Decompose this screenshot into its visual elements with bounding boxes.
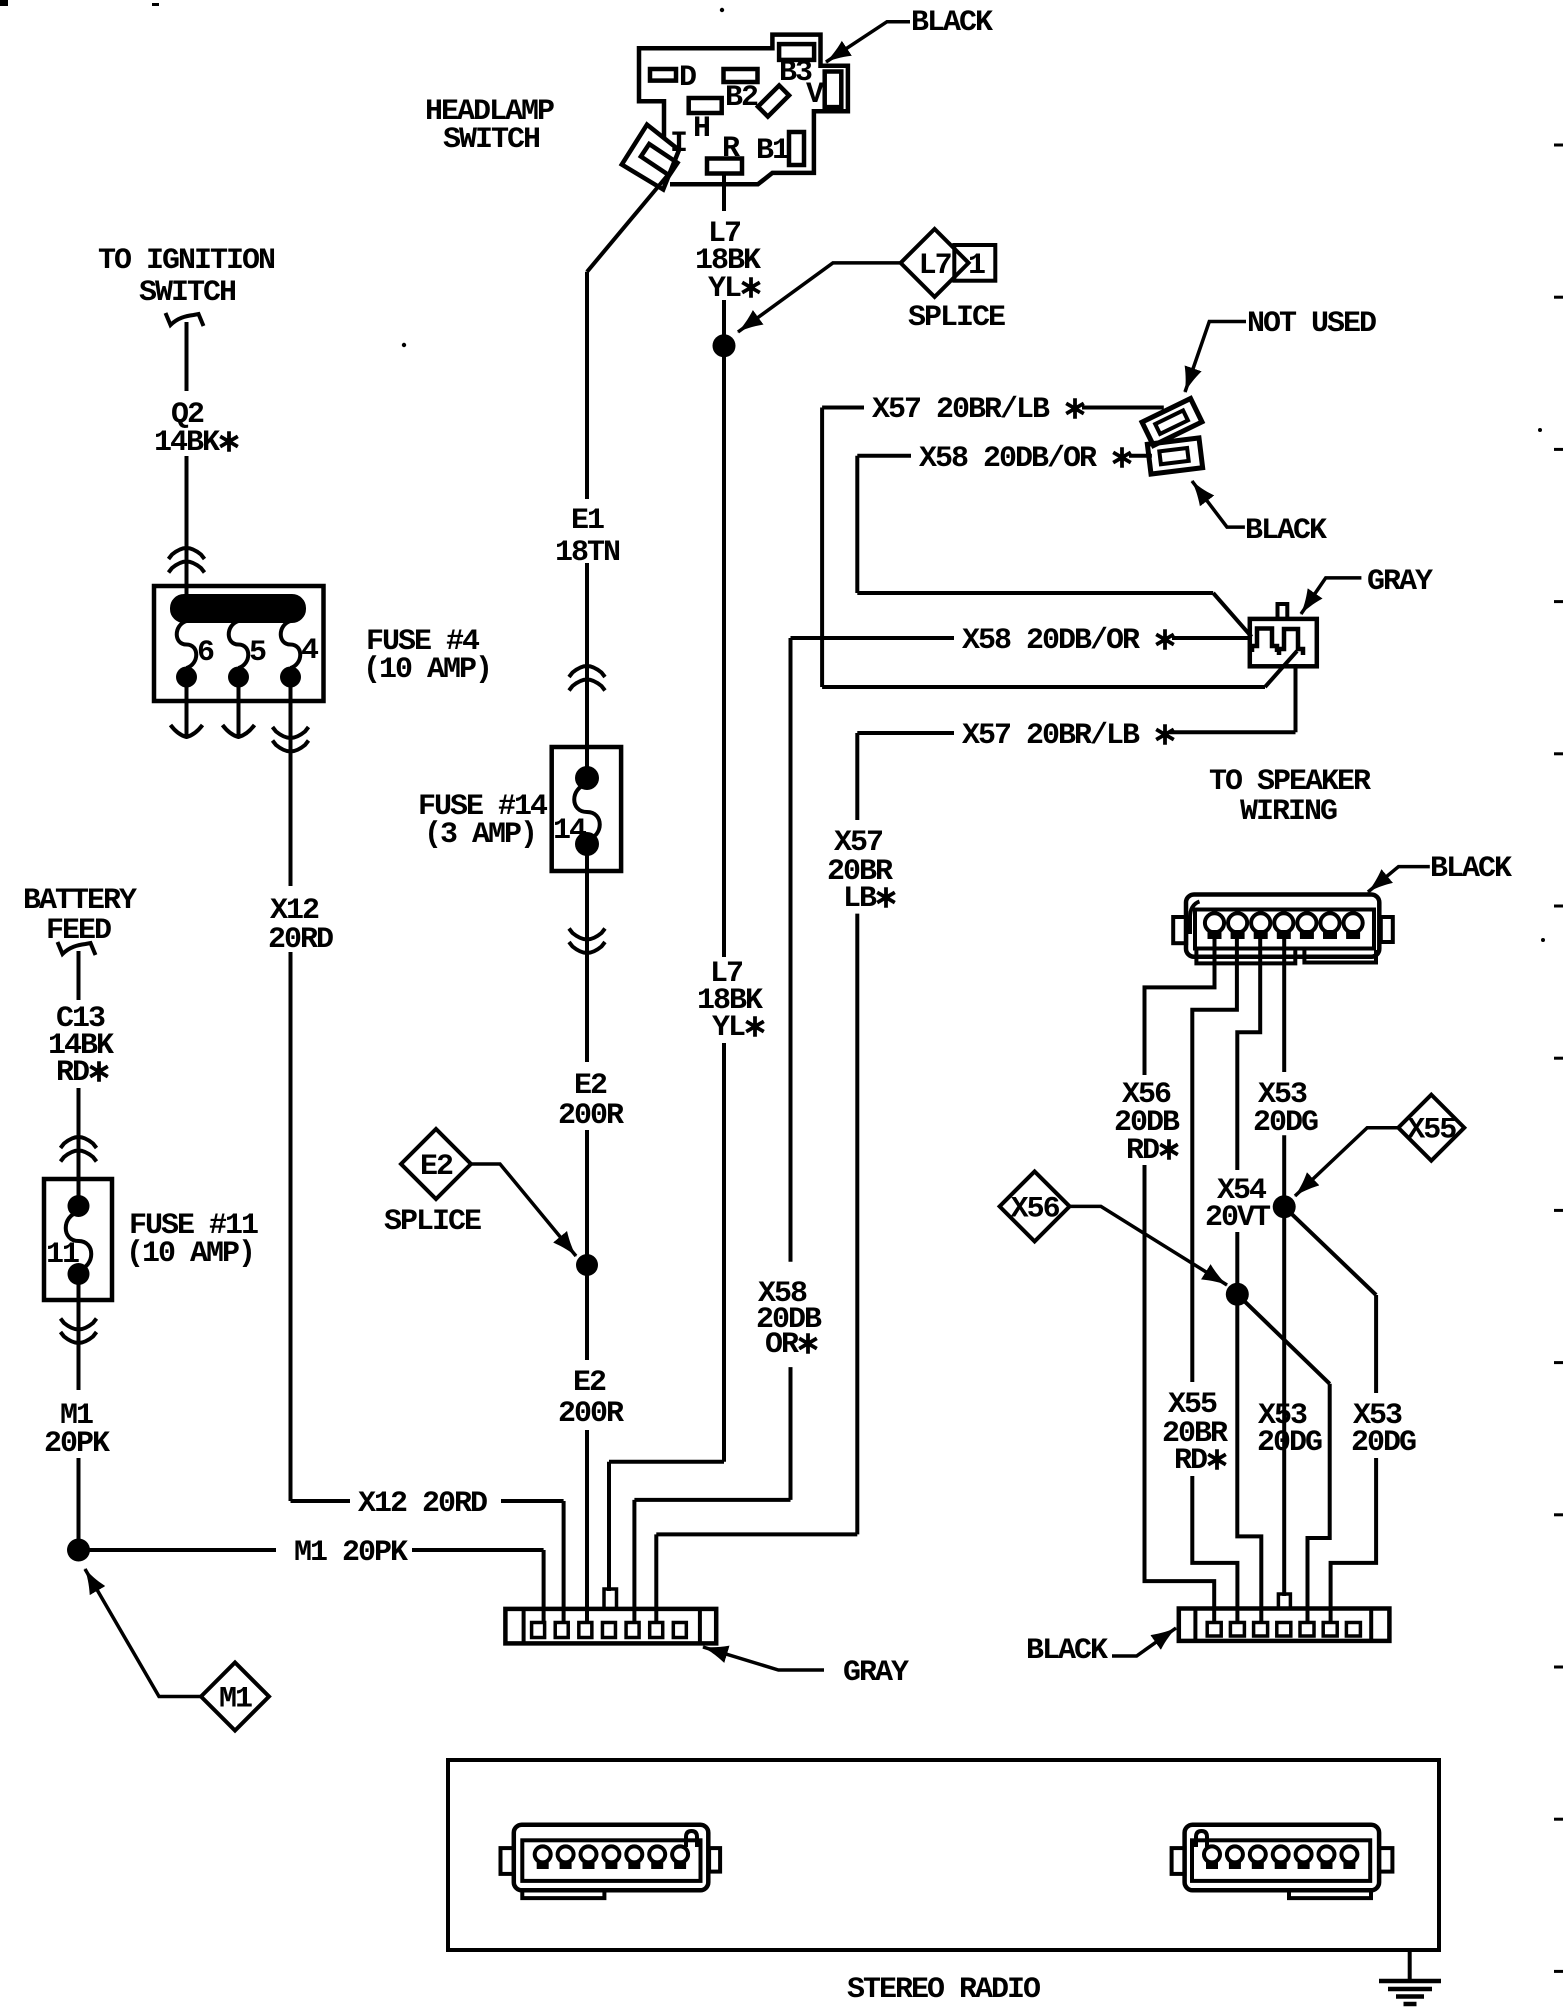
svg-text:BLACK: BLACK bbox=[1026, 1634, 1108, 1668]
svg-text:(10 AMP): (10 AMP) bbox=[363, 653, 491, 687]
svg-text:LB: LB bbox=[843, 882, 877, 916]
svg-text:X58 20DB/OR: X58 20DB/OR bbox=[962, 624, 1140, 658]
svg-text:1: 1 bbox=[968, 249, 985, 283]
svg-text:B1: B1 bbox=[756, 134, 789, 168]
svg-text:M1: M1 bbox=[219, 1683, 252, 1717]
svg-text:14: 14 bbox=[553, 814, 587, 848]
svg-text:X55: X55 bbox=[1407, 1114, 1456, 1148]
svg-text:11: 11 bbox=[46, 1238, 79, 1272]
svg-text:X12 20RD: X12 20RD bbox=[358, 1487, 487, 1521]
svg-text:6: 6 bbox=[197, 636, 214, 670]
svg-text:TO SPEAKER: TO SPEAKER bbox=[1209, 765, 1371, 799]
svg-text:X57 20BR/LB: X57 20BR/LB bbox=[962, 719, 1140, 753]
svg-text:H: H bbox=[693, 112, 709, 146]
svg-text:20RD: 20RD bbox=[268, 923, 333, 957]
svg-text:SPLICE: SPLICE bbox=[908, 301, 1005, 335]
svg-text:RD: RD bbox=[1174, 1444, 1207, 1478]
svg-text:M1 20PK: M1 20PK bbox=[294, 1536, 408, 1570]
svg-text:X56: X56 bbox=[1011, 1192, 1060, 1226]
svg-text:GRAY: GRAY bbox=[1367, 565, 1433, 599]
svg-text:(10 AMP): (10 AMP) bbox=[126, 1237, 254, 1271]
svg-text:SWITCH: SWITCH bbox=[443, 123, 539, 157]
svg-text:TO IGNITION: TO IGNITION bbox=[98, 244, 275, 278]
svg-text:(3 AMP): (3 AMP) bbox=[424, 818, 536, 852]
svg-text:SPLICE: SPLICE bbox=[384, 1205, 481, 1239]
svg-text:20DG: 20DG bbox=[1257, 1426, 1322, 1460]
svg-text:BLACK: BLACK bbox=[1245, 514, 1327, 548]
svg-text:14BK: 14BK bbox=[154, 426, 220, 460]
svg-text:STEREO RADIO: STEREO RADIO bbox=[847, 1973, 1040, 2007]
svg-text:E2: E2 bbox=[574, 1069, 607, 1103]
svg-text:OR: OR bbox=[765, 1328, 799, 1362]
svg-text:WIRING: WIRING bbox=[1240, 795, 1337, 829]
svg-text:20VT: 20VT bbox=[1205, 1201, 1271, 1235]
svg-text:4: 4 bbox=[301, 634, 319, 668]
svg-text:BLACK: BLACK bbox=[911, 6, 993, 40]
svg-text:B2: B2 bbox=[725, 81, 758, 115]
svg-text:5: 5 bbox=[249, 636, 266, 670]
svg-text:200R: 200R bbox=[558, 1099, 624, 1133]
svg-text:GRAY: GRAY bbox=[843, 1656, 909, 1690]
svg-text:BLACK: BLACK bbox=[1430, 852, 1512, 886]
svg-text:R: R bbox=[722, 132, 740, 166]
svg-text:200R: 200R bbox=[558, 1397, 624, 1431]
svg-text:RD: RD bbox=[56, 1056, 89, 1090]
svg-text:NOT USED: NOT USED bbox=[1247, 307, 1376, 341]
svg-text:SWITCH: SWITCH bbox=[139, 276, 235, 310]
svg-text:20DG: 20DG bbox=[1351, 1426, 1416, 1460]
svg-text:L7: L7 bbox=[919, 249, 951, 283]
svg-text:20DG: 20DG bbox=[1253, 1106, 1318, 1140]
svg-text:RD: RD bbox=[1126, 1134, 1159, 1168]
svg-text:E1: E1 bbox=[571, 504, 604, 538]
svg-text:D: D bbox=[679, 61, 696, 95]
svg-text:X57 20BR/LB: X57 20BR/LB bbox=[872, 393, 1050, 427]
svg-text:I: I bbox=[670, 127, 686, 161]
svg-text:E2: E2 bbox=[573, 1366, 606, 1400]
svg-text:X58 20DB/OR: X58 20DB/OR bbox=[919, 442, 1097, 476]
svg-text:BATTERY: BATTERY bbox=[23, 884, 137, 918]
svg-text:E2: E2 bbox=[420, 1150, 453, 1184]
svg-text:V: V bbox=[806, 78, 824, 112]
svg-text:YL: YL bbox=[712, 1011, 745, 1045]
svg-text:20PK: 20PK bbox=[44, 1427, 110, 1461]
